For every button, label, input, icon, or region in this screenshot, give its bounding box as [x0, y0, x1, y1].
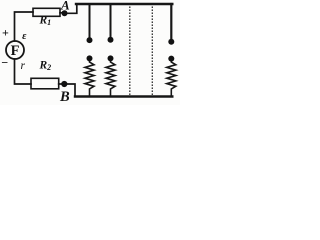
junction dot branch 2 lower	[108, 55, 114, 61]
wire node A up to top rail	[66, 5, 77, 14]
resistor R2	[31, 78, 59, 89]
junction dot branch 3 lower	[168, 56, 174, 62]
junction dot branch 1 lower	[87, 55, 93, 61]
dotted continuation line 2	[151, 7, 153, 96]
svg-text:−: −	[1, 55, 8, 69]
battery U1 (EMF source circle)	[6, 41, 24, 59]
svg-text:ε: ε	[22, 31, 27, 42]
wire top rail	[76, 3, 172, 5]
resistor (branch 2 zigzag)	[106, 59, 115, 97]
resistor R1	[33, 8, 60, 16]
wire R2 to node B	[59, 83, 62, 85]
svg-text:r: r	[21, 60, 26, 72]
junction dot branch 2 upper	[108, 37, 114, 43]
dotted continuation line 1	[129, 7, 131, 96]
resistor (branch 3 zigzag)	[167, 59, 176, 97]
junction dot branch 3 upper	[168, 39, 174, 45]
wire battery top to top-left corner to R1	[15, 12, 34, 41]
svg-text:A: A	[60, 0, 70, 13]
svg-text:+: +	[2, 25, 9, 39]
wire node B to bottom rail	[67, 84, 75, 96]
wire branch 2 from top rail	[110, 5, 112, 37]
resistor (branch 1 zigzag)	[85, 59, 94, 97]
wire R1 to node A	[60, 12, 62, 14]
node A junction dot	[62, 10, 68, 16]
node B junction dot	[61, 81, 67, 87]
wire branch 1 from top rail	[89, 5, 91, 37]
wire right edge down to branch 3 dot	[170, 4, 172, 39]
wire bottom rail	[75, 95, 172, 97]
junction dot branch 1 upper	[87, 37, 93, 43]
svg-text:B: B	[59, 89, 70, 105]
wire battery bottom to bottom-left corner to R2	[15, 59, 32, 84]
svg-text:F: F	[11, 43, 20, 59]
